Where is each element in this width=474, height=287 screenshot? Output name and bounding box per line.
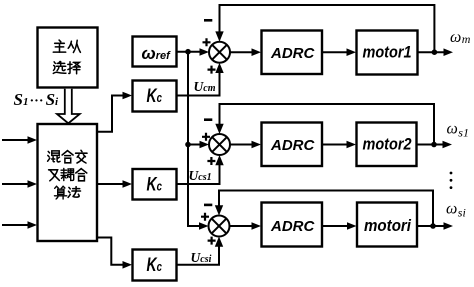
- node dot row2 branch: [185, 142, 191, 148]
- input arrow 1: [2, 139, 30, 141]
- wire: motori to output: [417, 225, 445, 227]
- plus sign row3 bottom: [208, 237, 216, 245]
- svg-text:motor1: motor1: [363, 43, 412, 62]
- block motori: [357, 203, 417, 247]
- text 选: [53, 61, 66, 73]
- wire: algorithm to Kc1: [97, 96, 125, 132]
- wire: motor1 to output: [418, 51, 446, 53]
- wire: ADRC2 to motor2: [323, 144, 350, 146]
- plus sign row2 left: [202, 133, 210, 141]
- wire: ADRC1 to motor1: [323, 51, 350, 53]
- svg-text:Kc: Kc: [147, 86, 163, 107]
- wire: sum1 to ADRC1: [230, 51, 254, 53]
- wire: sum2 to ADRC2: [230, 144, 254, 146]
- text 主: [53, 40, 65, 52]
- plus sign row1 bottom: [208, 66, 216, 74]
- text 叉: [49, 170, 60, 181]
- vertical ellipsis: [450, 172, 453, 175]
- svg-text:motori: motori: [364, 216, 412, 235]
- text 耦: [61, 168, 74, 180]
- text 合: [76, 169, 87, 181]
- node dot after motor2: [431, 142, 437, 148]
- block motor1: [357, 31, 418, 75]
- node dot on wref line: [185, 49, 191, 55]
- box Kc2: [133, 169, 177, 200]
- text 混: [48, 151, 60, 162]
- box: hybrid cross-coupling algorithm 混合交叉耦合算法: [38, 124, 98, 241]
- wire: motor2 to output: [417, 144, 445, 146]
- wire Kc2 up to summing node 2: [177, 165, 220, 185]
- op block ADRC U1: [262, 31, 323, 75]
- reference distribution wire (vertical): [188, 52, 199, 226]
- svg-text:Kc: Kc: [147, 255, 163, 276]
- text 交: [76, 150, 87, 163]
- svg-text:motor2: motor2: [363, 135, 412, 154]
- wire: sum3 to ADRC3: [230, 225, 255, 227]
- node dot after motor1: [432, 49, 438, 55]
- plus sign row1 left: [203, 38, 211, 46]
- text 择: [68, 62, 80, 74]
- svg-text:ADRC: ADRC: [270, 137, 315, 154]
- box: master-slave selection 主从选择: [38, 28, 98, 88]
- text 合: [62, 151, 73, 163]
- minus sign row3: [204, 204, 212, 207]
- minus sign row1: [204, 19, 212, 22]
- summing junction 2: [209, 134, 230, 155]
- svg-text:ADRC: ADRC: [270, 218, 315, 235]
- plus sign row3 left: [201, 213, 209, 221]
- input arrow 3: [2, 224, 30, 226]
- wire: ADRC3 to motori: [323, 225, 350, 227]
- minus sign row2: [204, 118, 212, 121]
- op block ADRC U3: [262, 203, 323, 247]
- svg-text:Kc: Kc: [147, 175, 163, 196]
- svg-text:ωm: ωm: [450, 29, 471, 46]
- feedback wire row1: [220, 5, 435, 52]
- block motor2: [357, 123, 417, 167]
- plus sign row2 bottom: [207, 157, 215, 165]
- input arrow 2: [2, 183, 30, 185]
- text 法: [68, 187, 80, 198]
- wire: algorithm to Kc2: [97, 183, 125, 185]
- summing junction 1: [209, 42, 230, 63]
- wire: branch to summing node 2: [188, 144, 200, 146]
- op block ADRC U2: [262, 123, 323, 167]
- wire Kc1 up to summing node 1: [177, 72, 220, 96]
- box Kc1: [133, 81, 177, 112]
- wire wref to summing node 1, with branch dot: [177, 51, 203, 53]
- feedback wire row2: [220, 104, 435, 145]
- box Kc3: [133, 250, 177, 281]
- text 从: [68, 40, 80, 52]
- box wref: [133, 37, 177, 67]
- summing junction 3: [209, 216, 230, 237]
- svg-text:ADRC: ADRC: [270, 45, 315, 62]
- feedback wire row3: [219, 191, 433, 227]
- node dot after motori: [430, 223, 436, 229]
- wire Kc3 up to summing node 3: [177, 246, 220, 265]
- hollow arrow from selection box to algorithm box: [57, 89, 80, 124]
- wire: algorithm to Kc3: [97, 238, 125, 265]
- text 算: [55, 186, 67, 199]
